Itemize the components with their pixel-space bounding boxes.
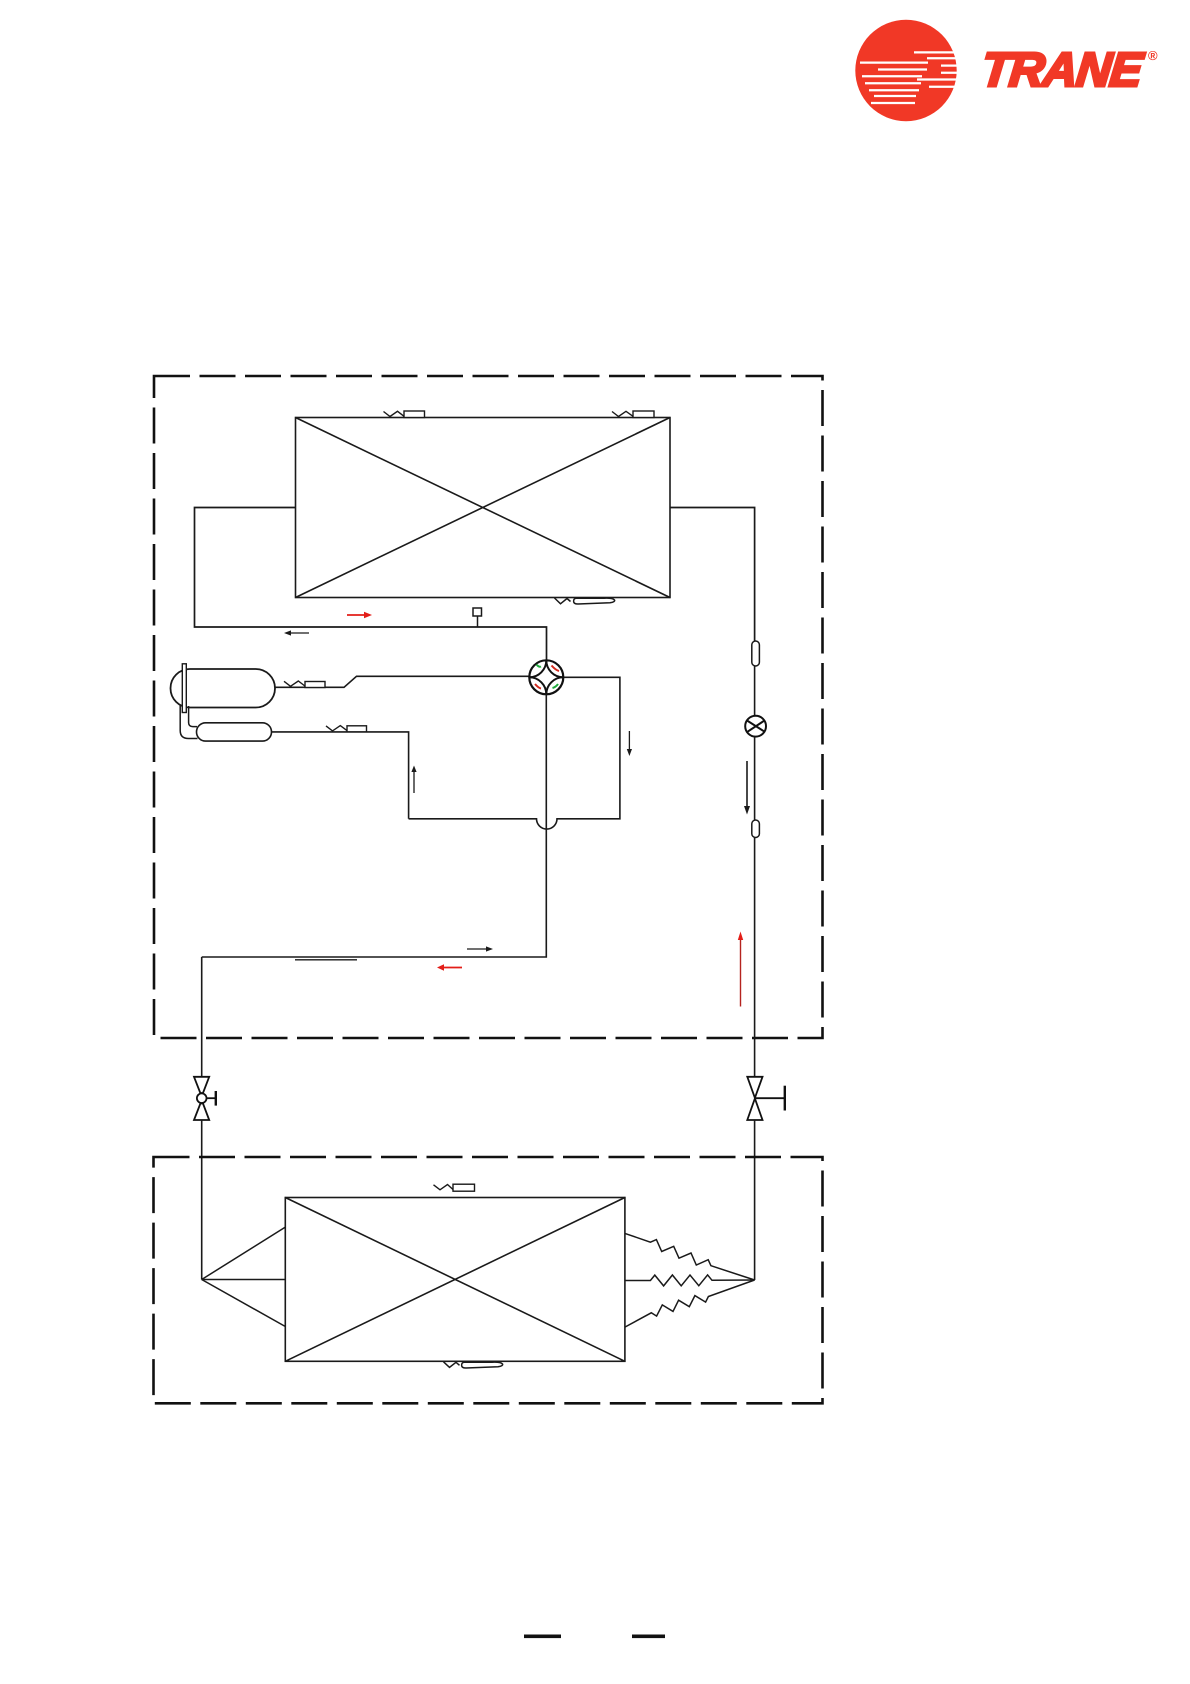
svg-text:TRANE: TRANE <box>979 43 1147 97</box>
compressor shell <box>171 669 276 708</box>
left interconnect pipe lower <box>201 1120 203 1280</box>
indoor coil heat exchanger <box>285 1198 625 1362</box>
pipe from outdoor coil left side down to gas line header <box>195 508 547 661</box>
down flow arrow on liquid line <box>744 761 750 815</box>
footer page mark left <box>524 1635 561 1639</box>
gas line service valve <box>194 1077 216 1120</box>
temperature sensor on discharge pipe <box>284 681 325 688</box>
footer page mark right <box>632 1635 665 1639</box>
temperature sensor above indoor coil <box>434 1184 475 1191</box>
bulb sensor under indoor coil <box>444 1362 503 1368</box>
temperature sensor on outdoor coil top right <box>612 411 654 418</box>
pipe from outdoor coil right side to liquid line <box>670 508 755 642</box>
4-way reversing valve <box>529 660 563 694</box>
pipe from reversing valve down to liquid header <box>202 694 547 957</box>
compressor mounting plate <box>182 664 186 713</box>
left interconnect pipe upper <box>201 957 203 1077</box>
black flow arrow right above header <box>467 946 493 951</box>
filter capsule lower <box>752 820 760 838</box>
Trane logo circle <box>855 20 958 121</box>
parallel stub under header <box>295 959 357 961</box>
suction pipe from accumulator through loop <box>272 732 409 819</box>
pipe below sight glass <box>754 737 756 820</box>
suction distributor cone left <box>202 1227 286 1326</box>
right interconnect pipe lower <box>754 1120 756 1280</box>
capillary distributor tube middle <box>625 1275 755 1286</box>
capillary distributor tube top <box>625 1233 755 1280</box>
pipe between filter and sight glass <box>754 666 756 716</box>
outdoor coil heat exchanger <box>296 418 671 598</box>
accumulator shell <box>197 723 272 741</box>
black flow arrow left below gas header <box>284 630 309 635</box>
bulb sensor under outdoor coil bottom edge <box>555 598 615 604</box>
filter drier capsule upper <box>752 641 760 666</box>
Trane logo wordmark TRANE <box>979 43 1158 97</box>
temperature sensor on suction pipe <box>326 726 367 732</box>
liquid line down to service valve <box>754 838 756 1077</box>
capillary distributor tube bottom <box>625 1280 755 1327</box>
pressure tap square on gas header <box>473 608 482 627</box>
red flow arrow left below header <box>437 964 462 971</box>
red flow arrow right on gas header <box>347 612 372 619</box>
svg-text:®: ® <box>1148 48 1158 63</box>
bottom loop pipe with crossover hump <box>409 677 620 829</box>
up flow arrow beside suction riser <box>411 766 416 794</box>
discharge pipe from compressor to reversing valve <box>275 676 529 687</box>
outdoor unit dashed enclosure <box>154 376 823 1038</box>
red flow arrow up on liquid line <box>738 932 743 1007</box>
suction elbow tube <box>180 705 197 739</box>
temperature sensor on outdoor coil top left <box>384 411 425 418</box>
down flow arrow beside loop right leg <box>627 731 632 756</box>
sight glass moisture indicator <box>745 716 766 737</box>
indoor unit dashed enclosure <box>154 1157 823 1403</box>
liquid line service valve <box>747 1077 785 1120</box>
